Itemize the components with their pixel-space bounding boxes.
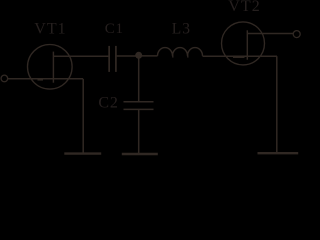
- ground bus left segment: [64, 152, 101, 154]
- node junction: [135, 52, 142, 59]
- transistor VT1 gate bar: [38, 79, 44, 81]
- ground bus right segment: [258, 152, 299, 154]
- wire C1 to node: [117, 55, 138, 57]
- svg-text:C2: C2: [98, 95, 118, 112]
- transistor VT1: [28, 45, 73, 90]
- output terminal: [293, 31, 300, 38]
- transistor VT2 gate bar: [233, 56, 245, 58]
- wire VT1 source descent: [82, 79, 84, 154]
- inductor L3: [158, 48, 203, 56]
- ground bus middle segment: [122, 153, 158, 155]
- svg-text:VT2: VT2: [228, 0, 261, 15]
- wire C2 to ground bus: [138, 110, 140, 154]
- wire VT1 drain to C1: [53, 55, 109, 57]
- capacitor C2: [124, 102, 154, 110]
- svg-text:C1: C1: [105, 21, 124, 37]
- wire node to C2: [138, 56, 140, 102]
- transistor VT2: [222, 22, 265, 65]
- svg-text:L3: L3: [172, 20, 191, 37]
- svg-text:VT1: VT1: [34, 21, 66, 38]
- wire L3 to VT2 through-line: [203, 55, 278, 57]
- input terminal: [1, 75, 8, 82]
- inductor L3 joint ticks: [172, 54, 174, 58]
- wire VT2 source descent: [276, 56, 278, 153]
- capacitor C1: [109, 46, 116, 72]
- wire VT2 drain to output terminal: [247, 33, 293, 35]
- wire node to L3: [138, 55, 157, 57]
- wire input to VT1 through-line: [8, 78, 83, 80]
